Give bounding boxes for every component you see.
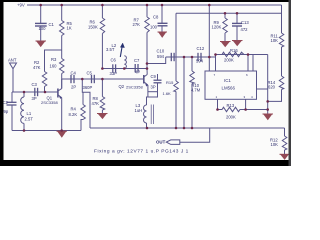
resistor R6	[88, 5, 105, 69]
capacitor C10	[157, 49, 175, 62]
svg-text:Fixing a gv: 12V77 1 u.P PG143: Fixing a gv: 12V77 1 u.P PG143 J 1	[94, 149, 189, 155]
svg-text:4.7M: 4.7M	[191, 87, 201, 92]
svg-text:LM566: LM566	[222, 85, 236, 90]
wire Q1 collector	[61, 79, 63, 89]
svg-text:9p: 9p	[4, 109, 9, 114]
svg-text:3P: 3P	[32, 96, 37, 101]
node coupling C4 C5	[81, 78, 84, 81]
node box rail C13	[236, 12, 239, 15]
capacitor C4	[71, 71, 77, 90]
svg-text:R13: R13	[227, 103, 235, 108]
out tap wire	[180, 128, 210, 142]
wire Q1 emitter	[61, 98, 63, 131]
wire bottom bus	[90, 127, 285, 129]
svg-text:2SC3358: 2SC3358	[41, 100, 58, 105]
capacitor C6	[110, 58, 118, 77]
resistor R7	[133, 5, 150, 69]
node bottom C11	[183, 127, 186, 130]
node base Q1 R2	[44, 91, 47, 94]
transistor Q2	[119, 75, 148, 90]
caption text bottom	[94, 149, 189, 155]
node signal IC feed	[208, 56, 211, 59]
svg-text:R15: R15	[166, 80, 174, 85]
wire upper box rail	[176, 12, 282, 14]
inductor L2 variable	[106, 43, 126, 69]
node ground rail Q1	[60, 129, 63, 132]
capacitor C1	[35, 5, 55, 41]
svg-text:620: 620	[268, 85, 276, 90]
wire column C11	[183, 57, 185, 129]
wire box left edge with resistor R15	[175, 13, 177, 81]
resistor R11	[271, 33, 284, 76]
wire collector coupling	[62, 78, 136, 80]
wire C4 C5 node to R4	[82, 79, 90, 128]
node rail R7	[146, 4, 149, 7]
svg-text:33P: 33P	[110, 71, 118, 76]
svg-text:C5: C5	[87, 71, 93, 76]
svg-text:200K: 200K	[226, 115, 236, 120]
ground under C1	[36, 41, 47, 47]
svg-text:1.6K: 1.6K	[163, 91, 172, 96]
svg-text:100: 100	[39, 26, 47, 31]
resistor R8	[92, 79, 105, 113]
wire R5 bottom to R2 top	[45, 50, 62, 72]
OUT pennant	[156, 140, 180, 145]
ground under C13	[232, 41, 243, 46]
node box rail R9	[224, 12, 227, 15]
node rail R6	[101, 4, 104, 7]
inductor L1	[21, 92, 34, 131]
node tank left	[101, 67, 104, 70]
node rail C8	[161, 4, 164, 7]
capacitor C8	[150, 5, 168, 32]
svg-text:47K: 47K	[92, 101, 100, 106]
svg-text:1uH: 1uH	[135, 108, 143, 113]
svg-text:4P: 4P	[135, 70, 140, 75]
node ground col R13	[266, 108, 269, 111]
svg-text:150K: 150K	[88, 25, 98, 30]
transistor Q1	[41, 89, 62, 106]
wire IC pin stub top left	[215, 57, 217, 71]
resistor R16	[222, 48, 244, 63]
svg-text:2SC3358: 2SC3358	[126, 85, 143, 90]
svg-text:2.5T: 2.5T	[25, 117, 34, 122]
IC U1 box	[205, 71, 257, 99]
ground right column	[263, 114, 274, 120]
svg-text:C13: C13	[241, 20, 249, 25]
node signal R16 left	[214, 53, 217, 56]
capacitor C3	[32, 82, 38, 101]
svg-text:R3: R3	[51, 57, 57, 62]
svg-text:472: 472	[241, 27, 249, 32]
svg-text:C3: C3	[32, 82, 38, 87]
svg-text:594: 594	[157, 54, 165, 59]
svg-text:C1: C1	[49, 22, 55, 27]
node bottom R10	[191, 127, 194, 130]
node bottom box	[175, 127, 178, 130]
wire IC pin stub top right	[247, 55, 249, 72]
svg-text:2P: 2P	[71, 85, 76, 90]
svg-text:C4: C4	[71, 71, 77, 76]
capacitor C9	[148, 74, 162, 97]
node R13 right	[244, 108, 247, 111]
resistor R3	[50, 50, 65, 89]
border frame	[0, 0, 291, 166]
svg-text:10K: 10K	[271, 142, 279, 147]
wire signal to R16 right	[216, 55, 268, 58]
svg-text:C8: C8	[153, 15, 159, 20]
capacitor C7	[134, 58, 140, 74]
ground under R8	[97, 114, 108, 119]
node tank L2	[123, 67, 126, 70]
resistor R4	[69, 92, 86, 130]
node collector jog	[146, 62, 149, 65]
svg-text:R4: R4	[71, 107, 77, 112]
node signal R10	[191, 56, 194, 59]
svg-text:360P: 360P	[83, 85, 93, 90]
svg-text:8.2K: 8.2K	[69, 112, 78, 117]
node bottom T1	[146, 127, 149, 130]
wire IC supply feed	[208, 5, 210, 71]
svg-text:3P: 3P	[151, 85, 156, 90]
svg-text:+9V: +9V	[17, 2, 25, 7]
node rail C1	[39, 4, 42, 7]
svg-text:1K: 1K	[67, 26, 72, 31]
wire IC pin stub right	[257, 88, 268, 90]
node +9V label	[17, 2, 25, 7]
svg-text:IC1: IC1	[224, 78, 231, 83]
svg-text:10K: 10K	[271, 38, 279, 43]
wire collector jog to C10	[147, 57, 166, 64]
svg-text:47K: 47K	[33, 65, 41, 70]
capacitor C2	[3, 92, 17, 131]
resistor R14	[268, 76, 284, 101]
svg-text:C7: C7	[134, 58, 140, 63]
transformer T1	[135, 97, 154, 128]
svg-text:200K: 200K	[224, 58, 234, 63]
svg-text:C12: C12	[197, 46, 205, 51]
node signal R16 right	[247, 53, 250, 56]
svg-text:R16: R16	[230, 48, 238, 53]
capacitor C13	[232, 13, 249, 40]
wire IC pin stub bottom left	[217, 99, 219, 109]
wire tank	[102, 68, 147, 70]
node signal C11	[183, 56, 186, 59]
ground under R9	[220, 42, 231, 47]
node rail R5	[60, 4, 63, 7]
wire IC pin stub top far right	[252, 55, 254, 72]
node rail IC feed	[208, 4, 211, 7]
svg-text:Q2: Q2	[119, 84, 125, 89]
node coupling R6	[101, 78, 104, 81]
ground left rail	[57, 131, 68, 137]
wire left ground rail	[12, 130, 81, 132]
svg-text:C10: C10	[157, 49, 165, 54]
svg-text:27K: 27K	[133, 22, 141, 27]
svg-text:3.5T: 3.5T	[106, 47, 115, 52]
svg-text:594: 594	[196, 59, 204, 64]
resistor R9	[212, 13, 228, 41]
svg-text:160: 160	[50, 64, 58, 69]
ground under C8	[158, 32, 168, 37]
node ground col R14	[266, 100, 269, 103]
wire signal row	[166, 56, 216, 58]
capacitor C12	[196, 46, 205, 64]
svg-text:100: 100	[150, 25, 158, 30]
wire base node Q1	[12, 91, 58, 93]
wire IC pin stub bottom right	[245, 99, 247, 109]
node R13 left	[216, 108, 219, 111]
resistor R2	[33, 60, 47, 92]
svg-text:120K: 120K	[212, 25, 222, 30]
wire right ground column	[267, 55, 269, 114]
resistor R5	[60, 5, 73, 50]
resistor R10	[163, 57, 201, 129]
resistor R13	[218, 103, 268, 120]
wire right supply column	[281, 5, 283, 33]
ground under R12	[280, 154, 290, 159]
wire top +9V rail	[27, 4, 282, 6]
svg-text:C6: C6	[111, 58, 117, 63]
node base Q1 ant	[23, 91, 26, 94]
svg-text:OUT: OUT	[156, 140, 166, 145]
resistor R12	[270, 128, 287, 154]
node tank right	[146, 67, 149, 70]
svg-text:ANT: ANT	[8, 58, 17, 63]
svg-text:L1: L1	[27, 111, 32, 116]
antenna ANT	[8, 58, 17, 93]
wire Q2 emitter	[147, 85, 149, 97]
node ground rail L1	[23, 129, 26, 132]
svg-text:C9: C9	[151, 74, 157, 79]
wire Q2 collector	[146, 69, 148, 75]
capacitor C5	[83, 71, 95, 91]
